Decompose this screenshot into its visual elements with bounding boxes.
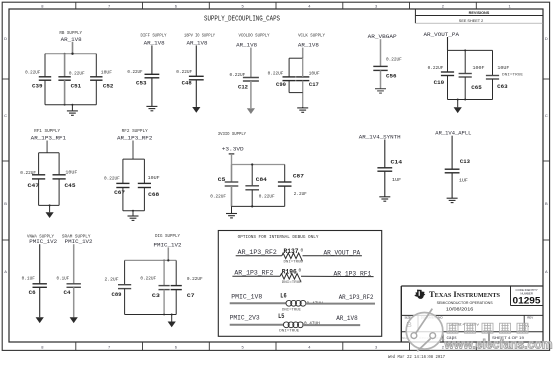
sheet title SUPPLY_DECOUPLING_CAPS — [204, 15, 280, 23]
wire C13 top — [451, 136, 453, 170]
svg-text:0.22UF: 0.22UF — [187, 276, 203, 282]
wire middle branch G10 — [251, 165, 253, 186]
svg-text:C: C — [545, 113, 548, 118]
svg-text:B: B — [545, 201, 548, 206]
wire C6 bottom — [39, 287, 41, 317]
svg-text:PMIC_1V8: PMIC_1V8 — [231, 293, 262, 300]
svg-text:0.22UF: 0.22UF — [386, 56, 402, 62]
wire below C17 / through wire G5 — [302, 58, 304, 108]
svg-text:AR_1P3_RF2: AR_1P3_RF2 — [234, 269, 273, 276]
net 18PV IO SUPPLY AR_1V8 — [184, 33, 215, 46]
svg-text:C14: C14 — [391, 159, 404, 165]
wire C6 top — [39, 244, 41, 284]
net RF1 SUPPLY AR_1P3_RF1 — [31, 129, 67, 142]
watermark chinese glyphs — [447, 323, 528, 333]
wire left branch G15 — [124, 260, 126, 284]
svg-text:REV: REV — [527, 316, 533, 320]
wire bottom rail G15 — [125, 314, 177, 316]
capacitor C47 0.22UF — [20, 170, 45, 189]
wire below C63 — [492, 79, 494, 100]
net VCLK SUPPLY AR_1V8 — [298, 33, 325, 48]
svg-text:C6: C6 — [29, 290, 36, 296]
ground arrow G8 — [46, 205, 54, 218]
svg-text:0.22UF: 0.22UF — [176, 69, 192, 75]
svg-text:0.1UF: 0.1UF — [57, 276, 70, 282]
svg-text:AR_1V8: AR_1V8 — [187, 39, 209, 46]
svg-text:PMIC_1V2: PMIC_1V2 — [65, 238, 93, 245]
capacitor C6 0.1UF — [22, 276, 47, 297]
svg-text:VCOLDO SUPPLY: VCOLDO SUPPLY — [239, 34, 270, 39]
title block frame — [401, 286, 543, 342]
wire supply stub G1 — [72, 42, 74, 54]
wire below C90 — [288, 81, 290, 93]
options box title — [238, 235, 319, 240]
svg-text:AR_1V8: AR_1V8 — [236, 42, 258, 49]
wire bottom rail G7 — [448, 99, 493, 101]
svg-text:C5: C5 — [218, 177, 226, 183]
svg-text:A: A — [545, 269, 548, 274]
svg-text:10UF: 10UF — [101, 70, 112, 76]
svg-text:C63: C63 — [497, 84, 508, 90]
svg-text:C7: C7 — [187, 293, 195, 299]
inductor L5 0.47UH DNI=TRUE — [278, 313, 320, 333]
svg-text:D: D — [4, 36, 7, 41]
revisions box — [415, 9, 543, 23]
wire row D left — [230, 324, 284, 326]
wire top rail G10 — [232, 163, 285, 165]
wire bottom rail G9 — [123, 210, 144, 212]
net AR_1V4_APLL — [435, 130, 472, 137]
svg-text:100F: 100F — [473, 65, 485, 71]
border zone numbers — [41, 3, 511, 349]
net AR_1V4_SYNTH — [359, 133, 401, 140]
svg-text:DNI=TRUE: DNI=TRUE — [279, 329, 300, 333]
wire supply stub G10 — [231, 154, 233, 165]
svg-text:AR_VOUT_PA: AR_VOUT_PA — [324, 250, 361, 257]
capacitor C7 0.22UF — [171, 276, 203, 299]
wire right branch G8 — [58, 153, 60, 175]
svg-text:PMIC_1V2: PMIC_1V2 — [29, 238, 57, 245]
svg-text:C65: C65 — [471, 85, 482, 91]
svg-text:1UF: 1UF — [392, 177, 402, 183]
wire C12 bottom — [250, 81, 252, 108]
inductor L6 0.47UH DNI=TRUE — [280, 293, 323, 313]
wire row C right — [305, 303, 375, 305]
svg-text:0.22UF: 0.22UF — [268, 71, 284, 77]
svg-text:C39: C39 — [32, 84, 43, 90]
wire bottom rail G8 — [39, 204, 60, 206]
svg-text:10UF: 10UF — [497, 65, 509, 71]
svg-text:0.22UF: 0.22UF — [230, 72, 246, 78]
wire top rail G7 — [448, 49, 493, 51]
svg-text:C48: C48 — [182, 80, 192, 86]
watermark elecfans logo — [406, 309, 443, 352]
ground G6 — [375, 88, 386, 93]
node PMIC_2V3 (row D left) — [230, 315, 260, 322]
wire C14 bottom — [384, 171, 386, 196]
wire right branch G7 — [492, 50, 494, 75]
svg-text:0.22UF: 0.22UF — [20, 170, 36, 176]
ground G12 — [447, 197, 458, 202]
svg-text:10UF: 10UF — [309, 71, 320, 77]
wire below C89 — [124, 289, 126, 315]
wire below C67 — [122, 188, 124, 211]
svg-text:AR_1V8: AR_1V8 — [336, 315, 358, 322]
resistor R196 0 DNI=TRUE — [280, 268, 302, 285]
plot date stamp — [388, 354, 445, 360]
border zone letters — [4, 36, 548, 274]
wire below C10 — [447, 76, 449, 100]
wire below C39 — [44, 80, 46, 105]
svg-text:PMIC_2V3: PMIC_2V3 — [230, 315, 260, 322]
svg-text:DIFF SUPPLY: DIFF SUPPLY — [141, 33, 167, 38]
wire below C87 — [284, 186, 286, 206]
watermark www.elecfans.com — [444, 337, 553, 351]
svg-text:R196: R196 — [282, 268, 297, 275]
svg-text:AR_1P3_RF1: AR_1P3_RF1 — [31, 135, 67, 142]
capacitor C84 0.22UF — [245, 177, 274, 199]
svg-text:C47: C47 — [28, 183, 40, 189]
svg-text:AR_1P3_RF2: AR_1P3_RF2 — [238, 249, 278, 256]
wire left branch G5 — [288, 58, 290, 77]
svg-text:C68: C68 — [148, 192, 159, 198]
node AR_1P3_RF2 (row C right) — [339, 294, 374, 301]
capacitor C67 0.22UF — [104, 175, 130, 196]
svg-text:A: A — [4, 269, 7, 274]
size row — [405, 316, 534, 330]
wire below C45 — [58, 179, 60, 206]
svg-text:OPTIONS FOR INTERNAL DEBUG ONL: OPTIONS FOR INTERNAL DEBUG ONLY — [238, 235, 319, 240]
wire middle branch G7 — [464, 50, 466, 73]
wire middle branch G15 — [163, 260, 165, 285]
capacitor C3 0.22UF — [140, 276, 169, 299]
svg-text:DIG SUPPLY: DIG SUPPLY — [155, 234, 180, 239]
net DIG SUPPLY PMIC_1V2 — [154, 234, 182, 249]
wire below C5 — [231, 186, 233, 206]
wire top rail G8 — [39, 152, 60, 154]
svg-text:C12: C12 — [238, 84, 248, 90]
svg-text:0.22UF: 0.22UF — [259, 193, 275, 199]
net RB SUPPLY AR_1V8 — [59, 31, 82, 43]
wire left branch G7 — [447, 50, 449, 72]
net 3V3IO SUPPLY +3.3VD — [218, 132, 247, 154]
svg-text:SEE SHEET 2: SEE SHEET 2 — [459, 19, 483, 23]
svg-text:C56: C56 — [386, 74, 397, 80]
svg-text:C52: C52 — [103, 83, 114, 89]
wire supply stub G8 — [46, 141, 48, 153]
wire left branch G10 — [231, 165, 233, 183]
svg-text:18PV IO SUPPLY: 18PV IO SUPPLY — [184, 33, 215, 38]
svg-text:AR_1P3_RF2: AR_1P3_RF2 — [339, 294, 374, 301]
ground arrow G3 — [192, 107, 200, 113]
svg-text:0: 0 — [301, 248, 304, 254]
capacitor C12 0.22UF — [230, 72, 259, 90]
svg-text:0.22UF: 0.22UF — [210, 193, 226, 199]
node AR_1P3_RF2 (row B left) — [234, 269, 273, 276]
ground G11 — [379, 196, 390, 201]
net DIFF SUPPLY AR_1V8 — [141, 33, 167, 46]
svg-text:C4: C4 — [64, 290, 72, 296]
node AR_1P3_RF2 (row A left) — [238, 249, 278, 256]
net VNWA SUPPLY PMIC_1V2 — [27, 235, 58, 245]
wire below C68 — [143, 188, 145, 211]
capacitor C56 0.22UF — [373, 56, 402, 79]
code identity box 01295 — [511, 286, 544, 306]
wire C4 bottom — [73, 287, 75, 317]
svg-text:C51: C51 — [71, 84, 82, 90]
svg-text:AR_1V4_APLL: AR_1V4_APLL — [435, 130, 472, 137]
wire below C65 — [464, 77, 466, 101]
ground G10 — [226, 206, 237, 218]
wire middle branch G1 — [64, 54, 66, 77]
svg-text:C: C — [4, 113, 7, 118]
wire row C left — [230, 302, 286, 304]
ground G1 — [67, 105, 78, 116]
svg-text:C87: C87 — [293, 173, 304, 179]
svg-text:AR_1P3_RF1: AR_1P3_RF1 — [334, 271, 372, 278]
wire bottom rail G10 — [232, 205, 285, 207]
svg-text:10UF: 10UF — [148, 175, 160, 181]
wire below C51 — [64, 80, 66, 106]
svg-text:R137: R137 — [284, 248, 299, 255]
wire top rail G15 — [125, 259, 177, 261]
ground arrow G4 — [247, 108, 255, 114]
sheet row — [402, 335, 525, 341]
svg-text:C67: C67 — [114, 190, 125, 196]
wire supply stub G7 — [447, 37, 449, 50]
wire C14 top — [384, 140, 386, 168]
svg-text:AR_1V8: AR_1V8 — [298, 42, 320, 49]
svg-text:C17: C17 — [309, 82, 319, 88]
ground G2 — [146, 106, 157, 111]
capacitor C65 100F — [459, 65, 485, 91]
svg-text:DNI=TRUE: DNI=TRUE — [284, 260, 304, 264]
wire C48 bottom — [195, 80, 197, 107]
svg-text:10/08/2016: 10/08/2016 — [446, 307, 474, 312]
wire below C47 — [38, 179, 40, 206]
svg-text:0.22UF: 0.22UF — [69, 71, 85, 77]
capacitor C89 2.2UF — [105, 277, 132, 299]
svg-text:3V3IO SUPPLY: 3V3IO SUPPLY — [218, 132, 247, 137]
wire below C3 — [163, 290, 165, 316]
Texas Instruments wordmark — [429, 290, 501, 311]
wire top rail G9 — [123, 158, 144, 160]
wire row B right — [301, 275, 374, 277]
capacitor C87 2.2UF — [278, 173, 307, 197]
svg-text:AR_1V4_SYNTH: AR_1V4_SYNTH — [359, 133, 401, 140]
wire top rail G5 — [289, 57, 303, 59]
wire top rail G1 — [45, 53, 96, 55]
ground arrow G13 — [36, 317, 44, 323]
capacitor C52 10UF — [90, 70, 113, 90]
capacitor C13 1UF — [445, 159, 470, 183]
wire row A right — [303, 255, 362, 257]
svg-text:0.22UF: 0.22UF — [127, 69, 142, 75]
wire right branch G15 — [175, 260, 177, 285]
svg-text:L5: L5 — [278, 313, 285, 320]
node AR_1P3_RF1 (row B right) — [334, 271, 372, 278]
svg-text:AR_VOUT_PA: AR_VOUT_PA — [424, 31, 460, 38]
ground arrow G14 — [70, 317, 78, 323]
capacitor C90 0.22UF — [268, 71, 296, 89]
wire below C84 — [251, 190, 253, 208]
svg-text:Wed Mar 22 14:16:08 2017: Wed Mar 22 14:16:08 2017 — [388, 354, 445, 360]
svg-text:C84: C84 — [256, 177, 268, 183]
node AR_VOUT_PA (row A right) — [324, 250, 361, 257]
wire C56 bottom — [380, 70, 382, 88]
wire bottom rail G1 — [45, 104, 96, 106]
wire right branch G9 — [143, 159, 145, 183]
capacitor C5 0.22UF — [210, 177, 238, 199]
node AR_1V8 (row D right) — [336, 315, 358, 322]
svg-text:C13: C13 — [460, 159, 470, 165]
wire below C7 — [175, 290, 177, 315]
svg-text:0: 0 — [299, 268, 302, 274]
wire C56 top — [380, 39, 382, 66]
border side zone ticks — [2, 79, 549, 240]
svg-text:DNI=TRUE: DNI=TRUE — [502, 73, 524, 77]
svg-text:DNI=TRUE: DNI=TRUE — [282, 281, 303, 285]
wire supply stub G15 — [167, 247, 169, 260]
ground G9 — [128, 211, 139, 221]
svg-text:C45: C45 — [65, 183, 76, 189]
svg-text:SEMICONDUCTOR OPERATIONS: SEMICONDUCTOR OPERATIONS — [437, 301, 494, 305]
ground arrow G15 — [168, 315, 176, 328]
capacitor C14 1UF — [377, 159, 403, 182]
svg-text:REVISIONS: REVISIONS — [469, 11, 490, 15]
wire supply stub G9 — [132, 141, 134, 160]
svg-text:2.2UF: 2.2UF — [294, 191, 307, 197]
wire C13 bottom — [451, 173, 453, 198]
svg-text:C90: C90 — [276, 82, 286, 88]
svg-text:AR_VBGAP: AR_VBGAP — [368, 33, 398, 40]
capacitor C39 0.22UF — [25, 70, 51, 90]
wire left branch G1 — [44, 54, 46, 77]
wire C53 top — [151, 45, 153, 74]
options box frame — [218, 231, 381, 337]
capacitor C45 10UF — [53, 170, 78, 190]
svg-text:0.1UF: 0.1UF — [22, 276, 36, 282]
svg-text:0.22UF: 0.22UF — [140, 276, 156, 282]
capacitor C10 0.22UF — [428, 65, 455, 86]
wire C53 bottom — [151, 78, 153, 106]
wire row B left — [232, 275, 280, 277]
wire left branch G8 — [38, 153, 40, 175]
wire below C52 — [95, 80, 97, 105]
svg-text:C3: C3 — [152, 293, 160, 299]
wire C12 top — [250, 48, 252, 78]
TI logo — [414, 290, 425, 299]
svg-text:AR_1V8: AR_1V8 — [144, 39, 166, 46]
net RF2 SUPPLY AR_1P3_RF2 — [117, 129, 153, 142]
svg-text:0.22UF: 0.22UF — [104, 175, 120, 181]
svg-text:2.2UF: 2.2UF — [105, 277, 119, 283]
svg-text:D: D — [545, 36, 548, 41]
net AR_VBGAP — [368, 33, 398, 40]
svg-text:10UF: 10UF — [65, 170, 77, 176]
svg-text:RF1 SUPPLY: RF1 SUPPLY — [34, 129, 60, 134]
svg-text:+3.3VD: +3.3VD — [222, 145, 244, 152]
capacitor C63 10UF DNI=TRUE — [486, 65, 524, 90]
svg-text:L6: L6 — [280, 293, 287, 300]
wire row A left — [236, 255, 282, 257]
wire C4 top — [73, 244, 75, 284]
svg-text:VCLK SUPPLY: VCLK SUPPLY — [298, 33, 325, 38]
svg-text:0.22UF: 0.22UF — [25, 70, 40, 76]
capacitor C4 0.1UF — [57, 276, 81, 297]
node PMIC_1V8 (row C left) — [231, 293, 262, 300]
svg-text:Texas Instruments: Texas Instruments — [429, 290, 501, 299]
wire right branch G1 — [95, 54, 97, 77]
svg-text:PMIC_1V2: PMIC_1V2 — [154, 241, 182, 248]
capacitor C68 10UF — [138, 175, 160, 198]
svg-text:www.elecfans.com: www.elecfans.com — [444, 337, 553, 351]
svg-text:AR_1V8: AR_1V8 — [61, 36, 83, 43]
capacitor C48 0.22UF — [176, 69, 203, 86]
capacitor C51 0.22UF — [58, 71, 85, 90]
svg-text:1UF: 1UF — [459, 177, 468, 183]
capacitor C53 0.22UF — [127, 69, 159, 86]
svg-text:DNI=TRUE: DNI=TRUE — [282, 308, 301, 312]
ground G5 — [297, 107, 308, 112]
resistor R137 0 DNI=TRUE — [282, 248, 304, 265]
svg-text:SUPPLY_DECOUPLING_CAPS: SUPPLY_DECOUPLING_CAPS — [204, 15, 280, 23]
capacitor C17 10UF — [296, 71, 320, 89]
wire C48 top — [195, 45, 197, 76]
ground arrow G7 — [454, 100, 462, 114]
svg-text:C89: C89 — [112, 292, 122, 298]
svg-text:B: B — [4, 201, 7, 206]
svg-text:0.22UF: 0.22UF — [428, 65, 444, 71]
svg-text:AR_1P3_RF2: AR_1P3_RF2 — [117, 135, 153, 142]
net VCOLDO SUPPLY AR_1V8 — [236, 34, 270, 49]
svg-text:C10: C10 — [434, 80, 445, 86]
wire row D right — [302, 324, 360, 326]
border zone ticks — [76, 2, 477, 350]
wire right branch G10 — [284, 165, 286, 183]
net AR_VOUT_PA — [424, 31, 460, 38]
wire supply stub G5 — [302, 48, 304, 59]
svg-text:RF2 SUPPLY: RF2 SUPPLY — [122, 129, 148, 134]
wire left branch G9 — [122, 159, 124, 183]
wire bottom rail G5 — [289, 92, 303, 94]
svg-text:C53: C53 — [136, 80, 147, 86]
net SRAM SUPPLY PMIC_1V2 — [62, 235, 93, 245]
svg-text:01295: 01295 — [513, 296, 541, 306]
